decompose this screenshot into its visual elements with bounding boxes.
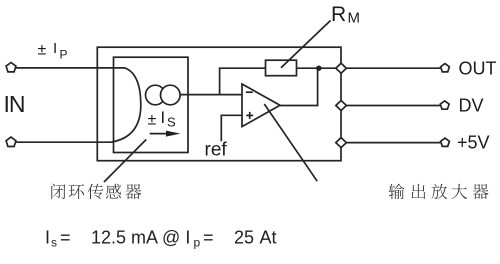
svg-text:M: M (348, 10, 361, 27)
svg-text:I: I (161, 109, 166, 127)
svg-text:ref: ref (205, 140, 228, 161)
svg-text:S: S (167, 115, 176, 130)
svg-text:At: At (260, 228, 277, 248)
svg-text:±: ± (148, 112, 157, 129)
svg-text:25: 25 (234, 228, 254, 248)
svg-text:IN: IN (4, 91, 25, 117)
svg-text:12.5 mA @ I: 12.5 mA @ I (91, 228, 190, 248)
svg-text:R: R (331, 3, 346, 26)
svg-text:OUT: OUT (459, 59, 497, 79)
svg-text:p: p (194, 236, 201, 250)
svg-text:=: = (203, 228, 214, 248)
svg-text:I: I (53, 40, 57, 57)
svg-text:DV: DV (459, 96, 484, 116)
svg-text:±: ± (38, 42, 47, 59)
svg-text:I: I (45, 228, 50, 248)
svg-text:s: s (51, 236, 57, 250)
svg-text:=: = (60, 228, 71, 248)
svg-text:+5V: +5V (457, 133, 490, 153)
svg-text:P: P (60, 48, 68, 62)
